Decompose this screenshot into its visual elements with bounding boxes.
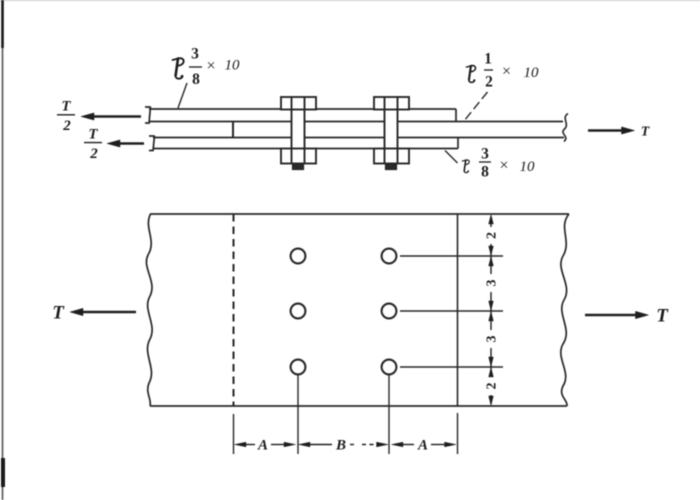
butt joint line of main plates [232, 122, 234, 138]
svg-text:2: 2 [485, 383, 500, 390]
top plate left broken end [145, 107, 151, 124]
scan edge artifact: left page line [2, 0, 5, 500]
main plate wavy break (right) [563, 114, 568, 142]
svg-text:×: × [206, 58, 215, 75]
svg-text:T: T [52, 303, 65, 324]
svg-text:1: 1 [484, 51, 492, 68]
svg-text:A: A [257, 438, 268, 454]
svg-text:10: 10 [524, 65, 540, 81]
bottom edge [150, 405, 567, 407]
force arrow T/2 lower left [107, 140, 144, 147]
label PL 1/2 x 10 (main plate) [466, 66, 475, 83]
bolt 2 [374, 97, 409, 170]
bottom extension lines [234, 375, 458, 455]
svg-text:2: 2 [485, 74, 493, 91]
svg-text:8: 8 [192, 71, 200, 88]
plan force arrow T left [70, 308, 136, 315]
top edge [150, 213, 569, 215]
label PL 3/8 x 10 (bottom splice plate) [462, 160, 469, 173]
svg-text:×: × [499, 157, 508, 174]
top splice plate bottom / main plate top edge [149, 121, 292, 123]
svg-text:3: 3 [481, 146, 489, 163]
bottom dimension chain A B A [235, 442, 457, 447]
svg-text:T: T [656, 306, 669, 327]
svg-text:10: 10 [225, 58, 241, 74]
svg-text:T: T [88, 127, 98, 143]
scan edge artifact: top page line [0, 0, 700, 2]
svg-text:T: T [61, 99, 71, 115]
svg-text:3: 3 [485, 336, 500, 343]
plan force arrow T right [585, 311, 649, 318]
row leader lines from right-column holes [400, 256, 503, 367]
top splice plate top edge [149, 108, 281, 110]
svg-text:T: T [641, 125, 651, 140]
svg-text:×: × [502, 63, 511, 80]
label T/2 lower [88, 127, 98, 163]
right wavy break [561, 214, 569, 406]
bottom plate left broken end [149, 136, 155, 152]
svg-text:A: A [417, 438, 428, 454]
svg-text:10: 10 [520, 159, 536, 175]
main plate bottom / bottom splice plate top edge [153, 137, 292, 139]
svg-text:2: 2 [89, 146, 98, 162]
right dimension chain 2,3,3,2 [489, 215, 494, 406]
label PL 3/8 x 10 (top splice plate) [173, 58, 184, 78]
svg-text:3: 3 [191, 46, 199, 63]
splice plate edge (solid) [457, 214, 459, 406]
top plate right end [455, 109, 457, 122]
force arrow T right (side view) [588, 127, 635, 134]
force arrow T/2 upper left [81, 113, 141, 120]
label T/2 upper [61, 99, 71, 135]
bottom splice plate bottom edge [153, 148, 281, 150]
bolt 1 [281, 97, 316, 170]
svg-text:B: B [335, 438, 346, 454]
bottom plate right end [457, 138, 459, 149]
svg-text:2: 2 [62, 118, 71, 134]
holes [291, 249, 397, 375]
svg-text:3: 3 [485, 280, 500, 287]
hidden edge (dashed) [233, 214, 235, 406]
svg-text:2: 2 [485, 232, 500, 239]
svg-text:8: 8 [481, 164, 489, 181]
left wavy break [146, 214, 152, 406]
